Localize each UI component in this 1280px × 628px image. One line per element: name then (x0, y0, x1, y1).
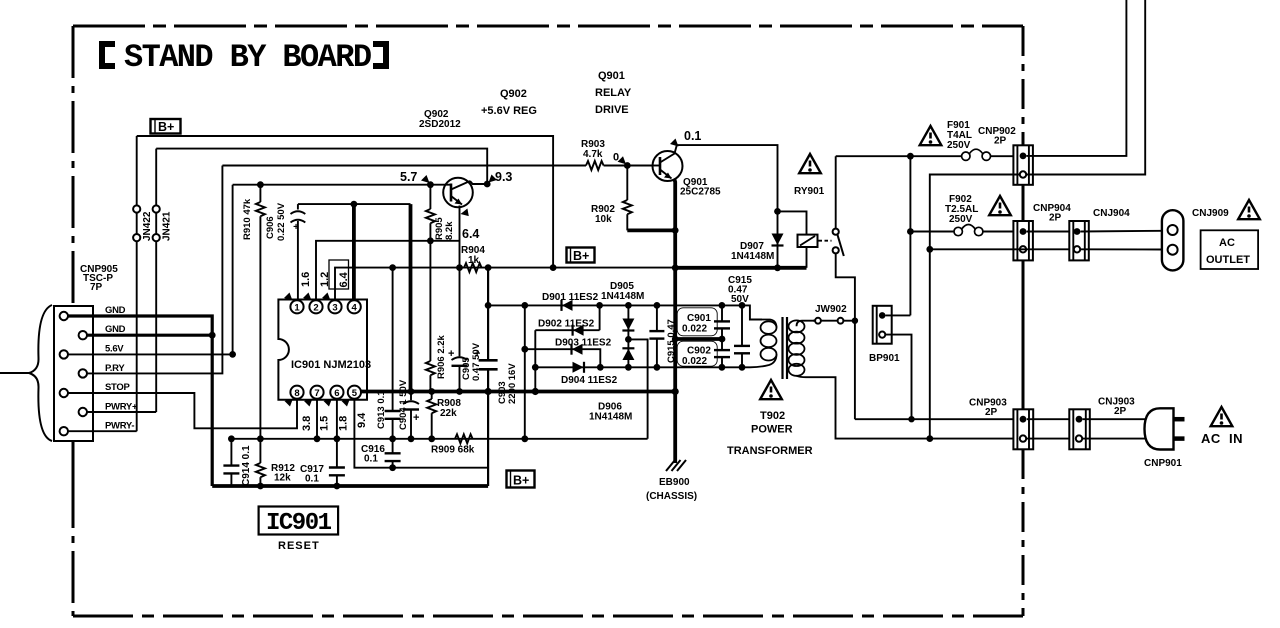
wire collector to relay (Q901) (677, 145, 778, 211)
IC901 pin 2 (309, 300, 322, 313)
wire GND pin2 (thick) (87, 334, 212, 337)
svg-text:RESET: RESET (278, 540, 320, 552)
connector CNJ903 2P (1069, 397, 1135, 450)
svg-text:0.1: 0.1 (305, 474, 319, 485)
B+ label box (top left) (151, 119, 181, 134)
wire AC link vertical (F901 to F902) (909, 156, 911, 315)
warning triangle CNJ909 (1238, 200, 1260, 219)
wire GND pin1 (thick) (68, 316, 212, 486)
svg-text:1N4148M: 1N4148M (589, 412, 632, 423)
svg-text:0.1: 0.1 (364, 454, 378, 465)
svg-text:D904 11ES2: D904 11ES2 (561, 375, 618, 386)
wire CNP902 pin2 off board (up) (1027, 0, 1146, 175)
wire PWRY+ pin6 (87, 411, 156, 413)
svg-text:1N4148M: 1N4148M (731, 251, 774, 262)
wire B+ feed line 2 (156, 149, 487, 184)
svg-text:STAND BY BOARD: STAND BY BOARD (124, 39, 371, 76)
resistor R912 12k (256, 435, 295, 489)
wire CNP902 pin2 return line (930, 175, 1020, 439)
resistor R904 1k (on B+ rail) (456, 245, 491, 272)
connector CNP905 TSC-P 7P (54, 264, 138, 441)
svg-text:JN421: JN421 (162, 211, 173, 241)
svg-text:D902 11ES2: D902 11ES2 (538, 319, 595, 330)
svg-text:B+: B+ (513, 474, 529, 488)
AC outlet CNJ909 (1162, 208, 1229, 270)
svg-text:(CHASSIS): (CHASSIS) (646, 491, 697, 502)
wire chassis centre tap (thick) (675, 337, 722, 341)
svg-text:+: + (293, 222, 299, 233)
svg-text:+: + (413, 412, 419, 424)
capacitor C902 0.022 (677, 339, 730, 367)
pin2 voltage 1.2 (303, 272, 331, 301)
wire B+ rail thick right portion to relay (675, 266, 806, 270)
svg-text:6.4: 6.4 (462, 227, 479, 241)
diode D905 1N4148M (vertical) (601, 281, 644, 367)
capacitor C905 0.47 50V (448, 268, 482, 395)
jumper JN422 (133, 136, 153, 431)
title STAND BY BOARD (102, 39, 386, 76)
transistor Q901 2SC2785 (RELAY DRIVE) (595, 70, 721, 198)
capacitor C916 0.1 (361, 435, 401, 471)
IC901 RESET label box (259, 507, 339, 553)
wire 5.6V pin3 to Q902 base line (68, 185, 233, 355)
wire relay-switch line to CNP903 pin1 (855, 418, 1019, 420)
IC901 pin 3 (328, 300, 341, 313)
capacitor C904 1 50V (398, 379, 419, 442)
wire P.RY pin4 up to relay drive line (87, 166, 223, 374)
diode D907 1N4148M (731, 211, 784, 271)
capacitor C914 0.1 (223, 435, 252, 486)
svg-text:JN422: JN422 (142, 211, 153, 241)
resistor R905 8.2k (426, 181, 455, 244)
resistor R909 68k (431, 434, 475, 455)
wire B+ feed line 1 (137, 136, 553, 268)
resistor R902 10k (591, 166, 632, 231)
transformer T902 primary winding (750, 320, 777, 368)
fuse F902 T2.5AL 250V (910, 194, 1013, 236)
svg-text:9.4: 9.4 (356, 412, 368, 428)
wire IC pin7 down (316, 399, 318, 439)
svg-text:GND: GND (105, 324, 126, 335)
svg-text:1N4148M: 1N4148M (601, 291, 644, 302)
svg-text:2P: 2P (1049, 213, 1062, 224)
svg-text:6.4: 6.4 (338, 271, 350, 287)
cable brace (off-board, left) (29, 305, 52, 441)
IC901 NJM2103 body (278, 300, 371, 400)
wire IC pin5 down and over (354, 399, 488, 468)
svg-text:B+: B+ (158, 120, 174, 134)
wire PWRY- pin7 (68, 430, 137, 432)
capacitor C913 0.1 (376, 268, 401, 439)
svg-text:Q901: Q901 (598, 70, 625, 82)
svg-text:4.7k: 4.7k (583, 149, 603, 160)
capacitor C906 0.22 50V (265, 202, 305, 300)
pin1 voltage 1.6 (284, 272, 312, 301)
wire BP901 pin2 down (885, 335, 911, 420)
wire mid line (pins/caps common) (231, 438, 647, 440)
svg-text:D901 11ES2: D901 11ES2 (542, 292, 599, 303)
svg-text:9.3: 9.3 (495, 170, 512, 184)
capacitor C915 0.47 (rotated label) (649, 305, 677, 367)
svg-text:BP901: BP901 (869, 353, 900, 364)
svg-text:2200 16V: 2200 16V (507, 363, 518, 404)
svg-text:7: 7 (314, 388, 319, 399)
svg-text:JW902: JW902 (815, 304, 847, 315)
fuse F901 T4AL 250V (947, 120, 1013, 160)
rectifier vertical V1 (524, 305, 526, 438)
svg-text:1k: 1k (468, 255, 480, 266)
warning triangle T902 (760, 380, 782, 399)
svg-text:STOP: STOP (105, 382, 130, 393)
wire IC pin2 sense line (316, 241, 460, 301)
wire IC901 top supply line (298, 203, 411, 205)
node 0 (Q901 base) (624, 162, 631, 169)
warning triangle RY901 (799, 154, 821, 173)
svg-text:1.6: 1.6 (300, 272, 312, 287)
wire CNP902 pin1 off board (up) (1027, 0, 1127, 156)
svg-text:PWRY+: PWRY+ (105, 402, 138, 413)
connector CNJ904 (1069, 208, 1130, 260)
svg-text:1.5: 1.5 (319, 416, 331, 431)
svg-text:C914 0.1: C914 0.1 (241, 445, 252, 486)
connector BP901 (869, 306, 900, 364)
svg-text:TRANSFORMER: TRANSFORMER (727, 445, 813, 457)
svg-text:12k: 12k (274, 473, 291, 484)
svg-text:EB900: EB900 (659, 477, 690, 488)
wire CNJ904 to AC outlet CNJ909 (1081, 230, 1164, 233)
pin7 voltage 1.5 (304, 399, 331, 432)
wire output bus (thick, IC pin5 to chassis column) (361, 390, 675, 394)
capacitor C915 0.47 50V (728, 275, 752, 367)
svg-text:CNJ909: CNJ909 (1192, 208, 1229, 219)
B+ label box (mid) (567, 248, 595, 264)
svg-text:+: + (448, 348, 454, 360)
chassis ground EB900 (646, 460, 697, 502)
wire diode mid link (628, 339, 647, 438)
pin6 voltage 1.8 (324, 399, 350, 432)
svg-text:C913 0.1: C913 0.1 (376, 390, 387, 429)
svg-text:2P: 2P (994, 136, 1007, 147)
wire CNP903 to CNJ903 (1027, 418, 1076, 420)
wire thick drop to output bus (409, 204, 413, 391)
pin8 voltage 3.8 (285, 399, 314, 432)
connector CNP903 2P (969, 398, 1033, 450)
svg-text:25C2785: 25C2785 (680, 187, 721, 198)
IC901 pin 6 (330, 386, 343, 399)
resistor R906 2.2k (426, 241, 447, 392)
IC901 pin 1 (290, 300, 303, 313)
svg-text:2P: 2P (1114, 406, 1127, 417)
svg-text:R910 47k: R910 47k (242, 198, 253, 240)
wire bottom ground bus (thick) (212, 484, 488, 488)
IC901 pin 8 (290, 386, 303, 399)
diode D902 11ES2 row (535, 305, 599, 335)
wire secondary bottom to CNP903 pin2 (806, 377, 1019, 438)
relay RY901 switch (819, 156, 855, 419)
wire Q901 emitter / chassis column (thick) (673, 180, 678, 464)
svg-text:+5.6V REG: +5.6V REG (481, 105, 537, 117)
resistor R910 47k (242, 181, 265, 439)
B+ label box (bottom) (507, 471, 535, 488)
IC901 pin 4 (348, 300, 361, 313)
board frame (dash-dot border of STAND BY BOARD) (73, 26, 1023, 616)
svg-text:5.7: 5.7 (400, 170, 417, 184)
svg-text:1: 1 (294, 303, 300, 314)
svg-text:CNJ904: CNJ904 (1093, 208, 1130, 219)
svg-text:C902: C902 (687, 346, 711, 357)
svg-text:R909 68k: R909 68k (431, 445, 475, 456)
svg-text:C906: C906 (265, 216, 276, 239)
connector CNP904 2P (1013, 203, 1071, 260)
svg-text:250V: 250V (949, 214, 973, 225)
svg-text:22k: 22k (440, 408, 457, 419)
svg-text:0.022: 0.022 (682, 324, 707, 335)
svg-text:C904 1 50V: C904 1 50V (398, 379, 409, 430)
transistor Q902 2SD2012 (+5.6V REG) (400, 88, 537, 268)
svg-text:250V: 250V (947, 140, 971, 151)
svg-text:IC901: IC901 (266, 510, 332, 537)
warning triangle F901 (920, 126, 942, 145)
transformer T902 secondary winding (789, 320, 816, 377)
wire IC pin3 to B+ rail (335, 268, 393, 301)
resistor R903 4.7k (581, 139, 653, 170)
diode D901 11ES2 (542, 292, 599, 311)
svg-text:PWRY-: PWRY- (105, 421, 134, 432)
connector CNP902 2P (978, 126, 1033, 185)
svg-text:2: 2 (313, 303, 318, 314)
svg-text:10k: 10k (595, 214, 612, 225)
svg-text:50V: 50V (731, 294, 749, 305)
pin3 voltage 6.4 (boxed) (322, 260, 350, 301)
pin5 voltage 9.4 (342, 399, 369, 429)
warning triangle F902 (989, 196, 1011, 215)
svg-text:2P: 2P (985, 407, 998, 418)
svg-text:1.8: 1.8 (338, 416, 350, 431)
wire to off-board left (0, 372, 29, 374)
IC901 pin 7 (310, 386, 323, 399)
warning triangle AC IN (1211, 407, 1233, 426)
svg-text:8: 8 (294, 388, 299, 399)
svg-text:R906 2.2k: R906 2.2k (436, 334, 447, 379)
wire frame column solid segments (1022, 185, 1025, 221)
wire CNJ903 to AC plug (1083, 418, 1147, 420)
svg-text:0.1: 0.1 (684, 129, 701, 143)
wire BP901 pin1 up to AC lines (886, 314, 911, 316)
svg-text:5: 5 (352, 388, 358, 399)
svg-text:AC IN: AC IN (1201, 431, 1243, 446)
wire Q902 base line (233, 184, 444, 186)
transformer T902 primary top lead (742, 305, 762, 319)
transformer T902 core (781, 317, 783, 379)
jumper JW902 (813, 304, 858, 324)
diode D904 11ES2 row / primary bottom line (532, 362, 750, 386)
svg-text:4: 4 (352, 303, 358, 314)
svg-text:T902: T902 (760, 410, 785, 422)
svg-text:Q902: Q902 (500, 88, 527, 100)
svg-text:C901: C901 (687, 313, 711, 324)
svg-text:3: 3 (332, 303, 337, 314)
AC OUTLET label box (1201, 230, 1259, 269)
svg-text:IC901 NJM2103: IC901 NJM2103 (291, 359, 371, 371)
wire switched AC line to F901 (836, 155, 962, 157)
svg-text:2SD2012: 2SD2012 (419, 119, 461, 130)
svg-text:3.8: 3.8 (301, 416, 313, 431)
svg-text:AC: AC (1219, 237, 1235, 249)
svg-text:+: + (474, 348, 480, 360)
wire CNP904 to CNJ904 (1027, 231, 1070, 233)
svg-text:GND: GND (105, 305, 126, 316)
jumper JN421 (153, 149, 173, 412)
capacitor C903 2200 16V (474, 268, 518, 486)
AC plug CNP901 (1144, 408, 1185, 469)
rectifier top line (488, 304, 742, 306)
svg-text:RY901: RY901 (794, 186, 825, 197)
diode D903 11ES2 row (525, 338, 612, 368)
relay RY901 coil (778, 186, 825, 268)
svg-text:0.22 50V: 0.22 50V (276, 202, 287, 241)
svg-text:B+: B+ (573, 249, 589, 263)
wire B+ rail (IC pin3 / C913 / R904 / C903 link) (393, 267, 676, 269)
svg-text:0.022: 0.022 (682, 356, 707, 367)
svg-text:DRIVE: DRIVE (595, 104, 629, 116)
resistor R908 22k (427, 388, 461, 442)
capacitor C901 0.022 (677, 305, 730, 339)
svg-text:7P: 7P (90, 282, 103, 293)
svg-text:P.RY: P.RY (105, 363, 125, 374)
svg-text:CNP901: CNP901 (1144, 458, 1182, 469)
IC901 pin 5 (348, 386, 361, 399)
svg-text:RELAY: RELAY (595, 87, 632, 99)
svg-text:OUTLET: OUTLET (1206, 254, 1250, 266)
diode D906 1N4148M (vertical) (589, 348, 634, 422)
wire thick IC pin4 feed (352, 204, 356, 300)
svg-text:5.6V: 5.6V (105, 344, 124, 355)
svg-text:POWER: POWER (751, 424, 793, 436)
wire relay-drive line P.RY to Q901 base (222, 165, 586, 167)
rectifier vertical V2 (534, 330, 536, 391)
wire STOP pin5 to IC901 pin8 (68, 393, 297, 428)
svg-text:D903 11ES2: D903 11ES2 (555, 338, 612, 349)
svg-text:6: 6 (334, 388, 339, 399)
capacitor C917 0.1 (300, 439, 345, 490)
wire IC pin6 down through C917 (336, 399, 338, 439)
svg-text:8.2k: 8.2k (444, 221, 455, 240)
